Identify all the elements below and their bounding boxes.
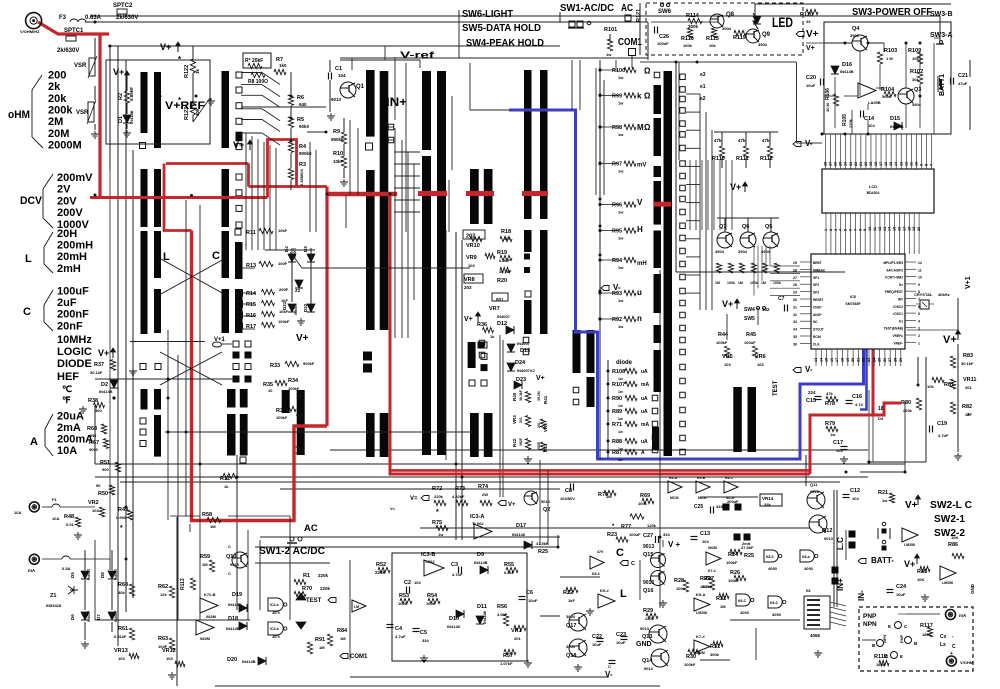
svg-text:R59: R59 xyxy=(200,554,210,560)
svg-text:Cx: Cx xyxy=(940,634,947,640)
svg-text:C5: C5 xyxy=(420,630,427,636)
svg-text:R51: R51 xyxy=(100,460,110,466)
svg-text:1w: 1w xyxy=(438,532,444,537)
svg-text:200V: 200V xyxy=(57,207,83,219)
svg-text:SW2-1: SW2-1 xyxy=(934,514,965,525)
svg-text:e1: e1 xyxy=(700,84,706,90)
svg-text:R14: R14 xyxy=(246,291,257,297)
svg-text:D9: D9 xyxy=(477,552,484,558)
svg-text:R3: R3 xyxy=(299,162,306,168)
svg-text:4093: 4093 xyxy=(740,610,750,615)
svg-text:18: 18 xyxy=(841,358,845,362)
svg-text:C7: C7 xyxy=(778,296,785,302)
svg-text:R112: R112 xyxy=(760,156,773,162)
svg-text:1kF: 1kF xyxy=(568,598,575,603)
svg-text:18.2kF: 18.2kF xyxy=(700,584,713,589)
svg-text:R98: R98 xyxy=(612,125,622,131)
svg-text:uA: uA xyxy=(641,369,648,375)
svg-text:mA: mA xyxy=(959,613,967,618)
svg-text:1w: 1w xyxy=(618,75,624,80)
svg-text:R42: R42 xyxy=(512,438,517,447)
svg-text:100F: 100F xyxy=(278,261,288,266)
svg-text:R67: R67 xyxy=(89,440,99,446)
svg-text:23: 23 xyxy=(867,358,871,362)
svg-text:R11B: R11B xyxy=(874,654,888,660)
svg-text:10K: 10K xyxy=(951,535,958,540)
svg-text:IN414B: IN414B xyxy=(99,389,113,394)
svg-text:3904: 3904 xyxy=(715,249,725,254)
svg-text:E: E xyxy=(900,654,903,659)
svg-text:R52: R52 xyxy=(376,562,386,568)
svg-text:10uF: 10uF xyxy=(896,592,906,597)
svg-text:RESET: RESET xyxy=(813,298,824,302)
svg-text:104: 104 xyxy=(868,123,875,128)
svg-text:R25: R25 xyxy=(744,553,754,559)
svg-text:1M: 1M xyxy=(715,281,720,285)
svg-text:R12: R12 xyxy=(220,476,230,482)
svg-text:2uF: 2uF xyxy=(57,297,77,309)
svg-text:V+: V+ xyxy=(233,140,244,150)
svg-text:392F: 392F xyxy=(519,437,523,446)
svg-text:Q4: Q4 xyxy=(852,26,860,32)
svg-text:IN4007: IN4007 xyxy=(517,341,531,346)
svg-text:33: 33 xyxy=(793,320,797,324)
svg-text:R53: R53 xyxy=(399,593,409,599)
svg-text:D16: D16 xyxy=(842,62,852,68)
svg-text:R84: R84 xyxy=(337,628,348,634)
svg-text:11: 11 xyxy=(873,227,877,231)
svg-text:10: 10 xyxy=(918,276,922,280)
svg-text:SW3-B: SW3-B xyxy=(930,11,953,18)
svg-text:R58: R58 xyxy=(202,512,212,518)
svg-text:47uF: 47uF xyxy=(958,81,968,86)
svg-text:100k: 100k xyxy=(683,43,693,48)
svg-text:IC3-B: IC3-B xyxy=(421,552,435,558)
svg-text:103: 103 xyxy=(757,362,764,367)
svg-text:*: * xyxy=(120,525,123,532)
svg-text:COM1: COM1 xyxy=(618,37,642,48)
svg-text:TEST(ENAB): TEST(ENAB) xyxy=(884,327,903,331)
svg-text:38.3kF: 38.3kF xyxy=(519,389,523,401)
svg-text:R74: R74 xyxy=(478,484,489,490)
svg-text:9013: 9013 xyxy=(541,499,551,504)
svg-text:V+: V+ xyxy=(943,334,957,346)
svg-text:R89: R89 xyxy=(612,409,622,415)
svg-text:Z2: Z2 xyxy=(295,288,301,293)
svg-text:Ω: Ω xyxy=(644,66,651,75)
svg-text:10: 10 xyxy=(868,227,872,231)
svg-text:0.63A: 0.63A xyxy=(85,15,102,21)
svg-text:R27: R27 xyxy=(704,576,714,582)
svg-text:IN4007X2: IN4007X2 xyxy=(517,368,536,373)
svg-text:uA: uA xyxy=(641,396,648,402)
svg-text:R2: R2 xyxy=(118,93,124,100)
svg-text:LM358: LM358 xyxy=(942,581,953,585)
svg-text:103: 103 xyxy=(836,448,843,453)
svg-text:V+: V+ xyxy=(905,500,918,511)
svg-text:220k: 220k xyxy=(318,573,329,578)
svg-text:29: 29 xyxy=(793,291,797,295)
svg-text:R96: R96 xyxy=(612,203,622,209)
svg-text:1w: 1w xyxy=(618,390,623,394)
svg-text:22: 22 xyxy=(862,358,866,362)
svg-text:20: 20 xyxy=(864,162,868,166)
svg-text:SPTC2: SPTC2 xyxy=(113,3,133,9)
svg-text:R90: R90 xyxy=(612,396,622,402)
svg-text:VREFu: VREFu xyxy=(893,334,904,338)
svg-text:R95: R95 xyxy=(612,229,622,235)
svg-text:334: 334 xyxy=(422,638,429,643)
svg-text:MMBAC: MMBAC xyxy=(813,268,826,272)
svg-text:SP1: SP1 xyxy=(813,276,819,280)
svg-text:M: M xyxy=(637,123,644,132)
svg-text:R18: R18 xyxy=(501,229,511,235)
svg-text:12: 12 xyxy=(904,162,908,166)
svg-text:k: k xyxy=(637,91,642,100)
svg-text:C: C xyxy=(23,306,31,318)
svg-text:R25: R25 xyxy=(538,549,548,555)
svg-text:Q8: Q8 xyxy=(726,12,735,18)
svg-text:104: 104 xyxy=(338,73,346,78)
svg-text:17: 17 xyxy=(902,227,906,231)
svg-text:104: 104 xyxy=(852,496,859,501)
svg-text:K6-B: K6-B xyxy=(697,476,706,480)
svg-text:900: 900 xyxy=(102,467,109,472)
svg-text:C: C xyxy=(952,644,956,650)
svg-text:R109: R109 xyxy=(908,48,921,54)
svg-text:10: 10 xyxy=(268,388,273,393)
svg-text:103: 103 xyxy=(702,539,709,544)
svg-text:V+1: V+1 xyxy=(965,276,972,289)
svg-text:4093: 4093 xyxy=(772,612,782,617)
svg-text:K8-0: K8-0 xyxy=(766,555,774,559)
svg-text:200mH: 200mH xyxy=(57,240,93,252)
svg-text:CONT/-/9M2: CONT/-/9M2 xyxy=(885,276,903,280)
svg-text:VR5: VR5 xyxy=(722,354,733,360)
svg-text:R88: R88 xyxy=(612,439,622,445)
svg-text:D2: D2 xyxy=(101,382,108,388)
svg-text:1w: 1w xyxy=(618,324,624,329)
svg-text:1M: 1M xyxy=(340,636,346,641)
svg-text:LM358: LM358 xyxy=(696,611,707,615)
svg-text:9013: 9013 xyxy=(331,97,342,102)
svg-text:20: 20 xyxy=(851,358,855,362)
svg-text:D18: D18 xyxy=(228,616,238,622)
svg-text:IN4148: IN4148 xyxy=(482,610,487,624)
svg-text:104: 104 xyxy=(414,580,421,585)
svg-text:R56: R56 xyxy=(497,604,507,610)
svg-text:1w: 1w xyxy=(618,132,624,137)
svg-text:FREQ/PEST: FREQ/PEST xyxy=(885,290,903,294)
svg-text:2W: 2W xyxy=(482,492,488,497)
svg-text:R82: R82 xyxy=(962,404,972,410)
svg-text:F1: F1 xyxy=(52,497,57,502)
svg-text:VR11: VR11 xyxy=(963,377,976,383)
svg-text:V+: V+ xyxy=(113,67,124,77)
svg-text:1w: 1w xyxy=(618,236,624,241)
svg-text:BEBT: BEBT xyxy=(813,261,822,265)
svg-text:℃: ℃ xyxy=(62,384,72,394)
svg-text:4070: 4070 xyxy=(272,635,280,639)
svg-text:R5: R5 xyxy=(297,117,304,123)
svg-text:R71: R71 xyxy=(612,422,622,428)
svg-text:36: 36 xyxy=(793,342,797,346)
svg-text:201: 201 xyxy=(514,636,521,641)
svg-text:D3: D3 xyxy=(303,246,308,252)
svg-text:1k: 1k xyxy=(195,68,200,74)
svg-text:V=: V= xyxy=(390,506,396,511)
svg-text:90k0: 90k0 xyxy=(299,124,310,129)
svg-text:C3: C3 xyxy=(451,562,458,568)
svg-text:103: 103 xyxy=(724,362,731,367)
svg-text:R29: R29 xyxy=(643,608,653,614)
svg-text:R20: R20 xyxy=(497,278,507,284)
svg-text:10uF: 10uF xyxy=(616,640,626,645)
svg-text:R101: R101 xyxy=(604,27,617,33)
svg-text:6.81kF: 6.81kF xyxy=(114,634,127,639)
svg-text:V+: V+ xyxy=(904,559,915,569)
svg-text:2k/630V: 2k/630V xyxy=(116,15,138,21)
svg-text:SW2-L C: SW2-L C xyxy=(930,500,972,511)
svg-text:R100: R100 xyxy=(612,68,625,74)
svg-text:120k: 120k xyxy=(647,523,657,528)
svg-text:26: 26 xyxy=(883,358,887,362)
svg-text:D20: D20 xyxy=(227,657,237,663)
svg-text:HEF: HEF xyxy=(57,371,79,383)
svg-text:9: 9 xyxy=(919,164,923,166)
svg-text:082M: 082M xyxy=(206,614,217,619)
svg-text:1w: 1w xyxy=(618,169,624,174)
svg-text:C: C xyxy=(631,561,635,567)
svg-text:CLK: CLK xyxy=(813,342,820,346)
svg-text:13: 13 xyxy=(883,227,887,231)
svg-text:12: 12 xyxy=(878,227,882,231)
svg-text:47k: 47k xyxy=(714,138,722,143)
svg-text:20mH: 20mH xyxy=(57,251,87,263)
svg-text:2k/630V: 2k/630V xyxy=(57,48,79,54)
svg-text:5: 5 xyxy=(844,229,848,231)
svg-text:SW1-AC/DC: SW1-AC/DC xyxy=(560,2,614,14)
svg-text:SW3-POWER OFF: SW3-POWER OFF xyxy=(852,6,933,18)
svg-text:IN4007: IN4007 xyxy=(294,304,298,315)
svg-text:900kF: 900kF xyxy=(303,361,315,366)
svg-text:C21: C21 xyxy=(958,73,968,79)
svg-text:4093: 4093 xyxy=(768,566,778,571)
svg-text:R9: R9 xyxy=(333,129,340,135)
svg-text:D13: D13 xyxy=(520,348,530,354)
svg-text:R69: R69 xyxy=(640,493,650,499)
svg-text:IN414B: IN414B xyxy=(890,124,904,129)
svg-text:V+: V+ xyxy=(160,42,171,52)
svg-text:C24: C24 xyxy=(896,584,907,590)
svg-text:AC: AC xyxy=(304,523,318,534)
svg-text:11: 11 xyxy=(909,162,913,166)
svg-text:20H: 20H xyxy=(57,228,77,240)
svg-text:10K: 10K xyxy=(917,577,924,582)
svg-text:103: 103 xyxy=(468,263,475,268)
svg-text:V=: V= xyxy=(410,496,418,502)
svg-text:R21: R21 xyxy=(878,490,888,496)
svg-text:V-ref: V-ref xyxy=(400,50,435,61)
svg-text:VR12: VR12 xyxy=(162,648,176,654)
svg-text:LM358: LM358 xyxy=(904,543,915,547)
svg-text:*: * xyxy=(967,413,970,420)
svg-text:2: 2 xyxy=(918,334,920,338)
svg-text:R103: R103 xyxy=(884,48,897,54)
svg-text:V/OHM: V/OHM xyxy=(960,660,974,665)
svg-text:R123: R123 xyxy=(184,107,190,120)
svg-text:3904: 3904 xyxy=(758,42,768,47)
svg-text:R111: R111 xyxy=(736,156,749,162)
svg-text:R72: R72 xyxy=(432,486,442,492)
svg-text:9013: 9013 xyxy=(643,544,654,550)
svg-text:C27: C27 xyxy=(643,533,653,539)
svg-text:30.1kF: 30.1kF xyxy=(90,370,103,375)
svg-text:R62: R62 xyxy=(158,584,168,590)
svg-text:R68: R68 xyxy=(87,426,97,432)
svg-text:NC: NC xyxy=(813,320,818,324)
svg-text:R106: R106 xyxy=(825,88,831,100)
svg-text:25: 25 xyxy=(878,358,882,362)
svg-text:R80: R80 xyxy=(901,400,911,406)
svg-text:L: L xyxy=(25,253,32,265)
svg-text:V: V xyxy=(637,198,643,207)
svg-text:15: 15 xyxy=(893,227,897,231)
svg-text:7: 7 xyxy=(853,229,857,231)
svg-text:PNP: PNP xyxy=(899,634,904,643)
svg-text:SW3-A: SW3-A xyxy=(930,32,953,39)
svg-text:1w: 1w xyxy=(882,498,888,503)
svg-text:100uF: 100uF xyxy=(657,41,669,46)
svg-text:DIODE: DIODE xyxy=(57,358,92,370)
svg-text:18: 18 xyxy=(907,227,911,231)
svg-text:103: 103 xyxy=(92,508,99,513)
svg-text:Q1: Q1 xyxy=(356,84,365,90)
svg-text:TEST: TEST xyxy=(773,380,779,396)
svg-text:4093: 4093 xyxy=(804,566,814,571)
svg-text:R122: R122 xyxy=(184,65,190,78)
svg-text:1M: 1M xyxy=(761,281,766,285)
svg-text:C17: C17 xyxy=(833,440,843,446)
svg-text:8N0: 8N0 xyxy=(89,433,97,438)
svg-text:n: n xyxy=(637,314,642,323)
svg-text:90: 90 xyxy=(96,483,101,488)
svg-text:K9-#: K9-# xyxy=(600,588,609,593)
svg-text:D19: D19 xyxy=(232,592,242,598)
svg-text:11: 11 xyxy=(918,268,922,272)
svg-text:R39: R39 xyxy=(276,408,286,414)
svg-text:19: 19 xyxy=(869,162,873,166)
svg-text:Lx: Lx xyxy=(940,642,946,648)
svg-text:D4: D4 xyxy=(878,416,884,421)
svg-text:R70: R70 xyxy=(302,586,312,592)
svg-text:1w: 1w xyxy=(606,52,612,57)
svg-text:12k: 12k xyxy=(160,592,167,597)
svg-text:21: 21 xyxy=(856,358,860,362)
svg-text:R6: R6 xyxy=(297,95,304,101)
svg-text:47.5kF: 47.5kF xyxy=(536,541,549,546)
svg-text:R11: R11 xyxy=(246,230,256,236)
svg-text:V+: V+ xyxy=(722,299,733,309)
svg-text:10k: 10k xyxy=(927,384,934,389)
svg-text:13: 13 xyxy=(814,358,818,362)
svg-text:10uF: 10uF xyxy=(528,598,538,603)
svg-text:V+: V+ xyxy=(98,348,109,358)
svg-text:17: 17 xyxy=(879,162,883,166)
svg-text:2V: 2V xyxy=(57,184,71,196)
svg-text:PNP: PNP xyxy=(863,613,877,620)
svg-text:Ω: Ω xyxy=(644,123,651,132)
svg-text:L.C: L.C xyxy=(836,537,845,550)
svg-text:VR6: VR6 xyxy=(755,354,766,360)
svg-text:12: 12 xyxy=(918,261,922,265)
svg-text:INT: INT xyxy=(898,298,903,302)
svg-text:479: 479 xyxy=(597,550,603,554)
svg-text:SP2: SP2 xyxy=(813,283,819,287)
svg-text:3904: 3904 xyxy=(722,26,732,31)
svg-text:0.01: 0.01 xyxy=(66,522,75,527)
svg-text:V-: V- xyxy=(805,365,813,374)
svg-text:IN-: IN- xyxy=(857,590,866,601)
svg-text:104/50V: 104/50V xyxy=(560,496,575,501)
svg-text:220k: 220k xyxy=(903,408,913,413)
svg-text:e3: e3 xyxy=(700,72,706,78)
svg-text:20k: 20k xyxy=(48,93,67,105)
svg-text:10 M: 10 M xyxy=(825,102,830,112)
svg-text:300k: 300k xyxy=(710,652,720,657)
svg-text:333: 333 xyxy=(716,504,723,509)
svg-text:*: * xyxy=(436,509,439,516)
svg-text:IOSC1: IOSC1 xyxy=(893,312,903,316)
svg-text:201: 201 xyxy=(519,417,523,423)
svg-text:30k: 30k xyxy=(195,108,200,116)
svg-text:360: 360 xyxy=(95,408,102,413)
svg-text:D8: D8 xyxy=(100,572,105,578)
svg-text:R94: R94 xyxy=(612,258,623,264)
svg-text:18: 18 xyxy=(874,162,878,166)
svg-text:uA: uA xyxy=(641,439,648,445)
svg-text:V+: V+ xyxy=(464,316,473,323)
svg-text:1M: 1M xyxy=(210,524,216,529)
svg-text:LCD: LCD xyxy=(869,184,877,189)
svg-text:0.5A: 0.5A xyxy=(62,566,71,571)
svg-text:R73: R73 xyxy=(455,486,465,492)
svg-text:25: 25 xyxy=(793,261,797,265)
svg-text:SP3: SP3 xyxy=(813,291,819,295)
svg-text:V+: V+ xyxy=(806,29,819,40)
svg-text:D24: D24 xyxy=(515,360,526,366)
svg-text:IN414B: IN414B xyxy=(242,659,256,664)
svg-text:4070: 4070 xyxy=(272,611,280,615)
svg-text:R40: R40 xyxy=(512,392,517,401)
svg-text:1k: 1k xyxy=(490,334,495,339)
svg-text:SW4: SW4 xyxy=(744,307,755,313)
svg-text:SW1-2 AC/DC: SW1-2 AC/DC xyxy=(259,546,325,557)
svg-text:LOGIC: LOGIC xyxy=(57,346,92,358)
svg-text:R60: R60 xyxy=(118,582,128,588)
svg-text:R93: R93 xyxy=(612,291,622,297)
svg-text:1M: 1M xyxy=(720,604,726,609)
svg-text:Dv: Dv xyxy=(899,283,903,287)
svg-text:1w: 1w xyxy=(618,298,624,303)
svg-text:H: H xyxy=(637,225,643,234)
svg-text:C: C xyxy=(616,547,624,559)
svg-text:100uF: 100uF xyxy=(629,532,641,537)
svg-text:32: 32 xyxy=(793,313,797,317)
svg-text:26: 26 xyxy=(834,162,838,166)
svg-text:47k: 47k xyxy=(738,138,746,143)
svg-text:SM7548F: SM7548F xyxy=(845,302,861,306)
